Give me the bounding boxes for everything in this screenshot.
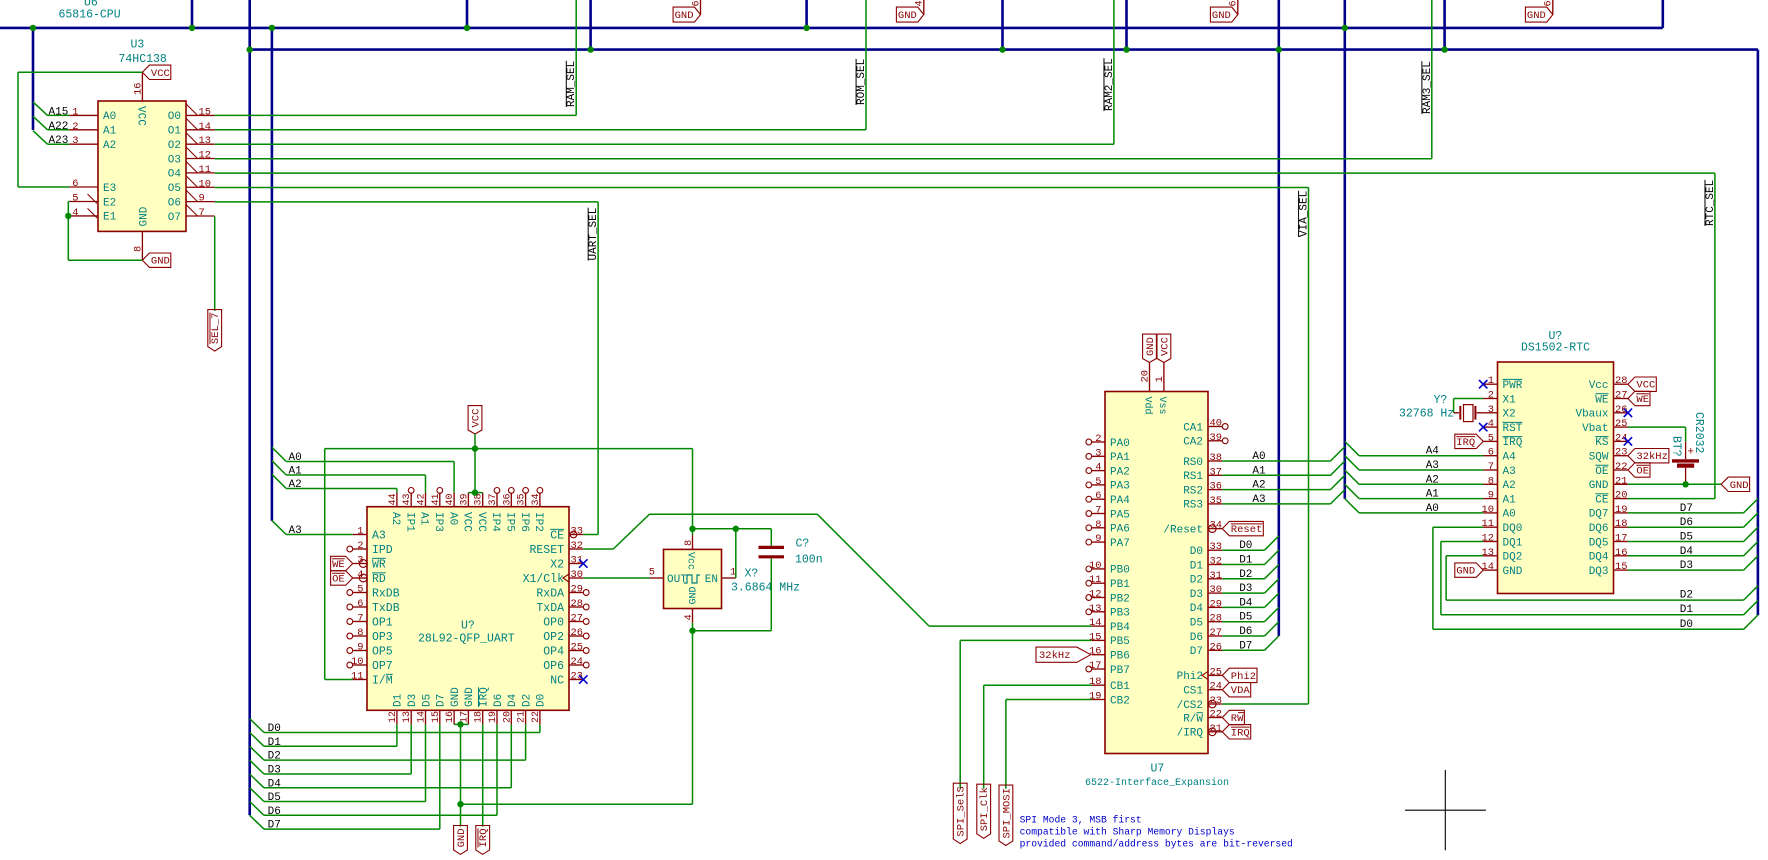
svg-text:A0: A0: [103, 111, 116, 123]
svg-text:8: 8: [1095, 519, 1101, 531]
svg-text:PA4: PA4: [1110, 495, 1130, 507]
svg-text:DQ5: DQ5: [1589, 537, 1609, 549]
svg-text:18: 18: [1089, 676, 1101, 688]
svg-text:VCC: VCC: [151, 68, 170, 80]
svg-text:19: 19: [488, 711, 499, 723]
svg-text:5: 5: [72, 193, 78, 205]
svg-text:VCC: VCC: [461, 512, 473, 532]
svg-text:PB3: PB3: [1110, 608, 1130, 620]
svg-text:D1: D1: [268, 737, 282, 749]
svg-text:28: 28: [571, 598, 583, 610]
svg-text:A2: A2: [389, 512, 401, 525]
svg-text:C?: C?: [796, 538, 810, 551]
svg-text:OP7: OP7: [372, 660, 393, 673]
svg-text:OP3: OP3: [372, 631, 393, 644]
svg-text:WR: WR: [372, 558, 386, 571]
svg-text:15: 15: [199, 106, 211, 118]
svg-text:VCC: VCC: [470, 409, 482, 428]
svg-text:A2: A2: [1503, 480, 1516, 492]
svg-text:VCC: VCC: [1159, 337, 1171, 356]
svg-text:GND: GND: [456, 828, 468, 847]
svg-text:A15: A15: [49, 106, 69, 118]
svg-text:3: 3: [72, 135, 78, 147]
svg-text:65816-CPU: 65816-CPU: [59, 9, 121, 22]
svg-text:PB4: PB4: [1110, 622, 1130, 634]
svg-text:GND: GND: [675, 10, 694, 22]
svg-text:28: 28: [1210, 613, 1222, 625]
svg-text:GND: GND: [1527, 10, 1546, 22]
svg-text:2: 2: [1095, 433, 1101, 445]
svg-text:A3: A3: [372, 529, 386, 542]
svg-text:A3: A3: [289, 525, 302, 537]
svg-text:SPI_SelS: SPI_SelS: [956, 786, 968, 836]
svg-text:14: 14: [199, 121, 211, 133]
svg-text:6: 6: [72, 178, 78, 190]
svg-text:10: 10: [199, 178, 211, 190]
svg-text:A0: A0: [446, 512, 458, 525]
svg-text:D6: D6: [1239, 626, 1252, 638]
svg-text:25: 25: [1615, 418, 1627, 430]
svg-text:1: 1: [357, 526, 363, 538]
svg-text:/IRQ: /IRQ: [1177, 728, 1204, 740]
svg-text:44: 44: [388, 493, 399, 505]
svg-text:2: 2: [357, 540, 363, 552]
svg-text:O7: O7: [168, 212, 181, 224]
svg-text:14: 14: [417, 711, 428, 723]
svg-text:GND: GND: [138, 206, 150, 226]
svg-text:D4: D4: [507, 693, 519, 707]
svg-text:24: 24: [1210, 681, 1222, 693]
svg-text:35: 35: [1210, 495, 1222, 507]
svg-text:D0: D0: [536, 694, 548, 707]
svg-text:D0: D0: [268, 723, 281, 735]
svg-text:15: 15: [1615, 561, 1627, 573]
svg-text:compatible with Sharp Memory D: compatible with Sharp Memory Displays: [1020, 827, 1235, 838]
svg-text:3: 3: [1095, 447, 1101, 459]
svg-text:23: 23: [1615, 447, 1627, 459]
svg-text:O6: O6: [168, 197, 181, 209]
svg-text:IRQ: IRQ: [1503, 437, 1523, 449]
svg-text:IP3: IP3: [432, 512, 444, 532]
svg-text:16: 16: [1089, 646, 1101, 658]
svg-text:RTC_SEL: RTC_SEL: [1705, 180, 1717, 226]
svg-text:PA2: PA2: [1110, 466, 1130, 478]
svg-text:O2: O2: [168, 140, 181, 152]
svg-text:1: 1: [1154, 376, 1166, 382]
svg-text:SQW: SQW: [1589, 452, 1609, 464]
svg-text:D5: D5: [1239, 612, 1252, 624]
svg-text:WE: WE: [1595, 394, 1609, 406]
svg-text:X1: X1: [1503, 394, 1517, 406]
svg-text:BT?: BT?: [1670, 436, 1683, 457]
svg-text:Vcc: Vcc: [685, 552, 696, 570]
svg-text:RESET: RESET: [529, 544, 564, 557]
svg-text:O3: O3: [168, 154, 181, 166]
svg-text:X?: X?: [745, 568, 759, 581]
svg-text:CR2032: CR2032: [1692, 412, 1705, 454]
svg-text:28: 28: [1615, 375, 1627, 387]
svg-text:9: 9: [357, 642, 363, 654]
svg-text:/Reset: /Reset: [1163, 524, 1203, 536]
svg-text:9: 9: [1488, 490, 1494, 502]
svg-text:3: 3: [1488, 404, 1494, 416]
svg-text:KS: KS: [1595, 437, 1609, 449]
svg-text:7: 7: [199, 207, 205, 219]
svg-text:OE: OE: [1636, 465, 1649, 477]
svg-text:D4: D4: [1190, 603, 1204, 615]
svg-text:I/M: I/M: [372, 674, 393, 687]
svg-text:34: 34: [531, 493, 542, 505]
svg-text:GND: GND: [450, 687, 462, 707]
svg-text:X1/Clk: X1/Clk: [523, 573, 565, 586]
svg-text:7: 7: [1095, 505, 1101, 517]
svg-text:DQ3: DQ3: [1589, 566, 1609, 578]
svg-text:VCC: VCC: [475, 512, 487, 532]
svg-text:VCC: VCC: [135, 106, 147, 126]
svg-text:Vbat: Vbat: [1582, 423, 1608, 435]
svg-text:PA7: PA7: [1110, 538, 1130, 550]
svg-text:CE: CE: [550, 529, 564, 542]
svg-text:CA1: CA1: [1183, 422, 1203, 434]
svg-text:13: 13: [199, 135, 211, 147]
svg-text:D7: D7: [1190, 646, 1203, 658]
svg-text:41: 41: [431, 493, 442, 505]
svg-text:D0: D0: [1190, 546, 1203, 558]
svg-text:D2: D2: [521, 694, 533, 707]
svg-text:5: 5: [1488, 432, 1494, 444]
svg-text:D4: D4: [1680, 546, 1694, 558]
svg-text:32: 32: [571, 540, 583, 552]
svg-text:13: 13: [1482, 547, 1494, 559]
svg-text:A22: A22: [49, 121, 69, 133]
svg-text:A23: A23: [49, 135, 69, 147]
svg-text:TxDB: TxDB: [372, 602, 400, 615]
svg-text:5: 5: [649, 567, 655, 579]
svg-text:29: 29: [1210, 598, 1222, 610]
svg-text:A0: A0: [1252, 451, 1265, 463]
svg-text:PB6: PB6: [1110, 651, 1130, 663]
svg-text:39: 39: [1210, 432, 1222, 444]
svg-text:D3: D3: [1239, 583, 1252, 595]
svg-text:17: 17: [459, 711, 470, 723]
svg-text:A1: A1: [289, 466, 303, 478]
svg-text:E2: E2: [103, 197, 116, 209]
svg-text:DS1502-RTC: DS1502-RTC: [1521, 341, 1590, 354]
svg-text:4: 4: [1095, 462, 1101, 474]
svg-text:A2: A2: [1426, 474, 1439, 486]
svg-text:GND: GND: [689, 586, 700, 604]
svg-text:Vcc: Vcc: [1589, 380, 1609, 392]
svg-text:provided command/address bytes: provided command/address bytes are bit-r…: [1020, 839, 1293, 850]
svg-text:PA1: PA1: [1110, 452, 1130, 464]
svg-text:39: 39: [459, 493, 470, 505]
svg-text:D2: D2: [1190, 575, 1203, 587]
svg-text:D0: D0: [1239, 540, 1252, 552]
svg-text:OE: OE: [332, 573, 345, 585]
svg-text:22: 22: [1210, 709, 1222, 721]
svg-text:12: 12: [199, 150, 211, 162]
svg-text:4: 4: [1488, 418, 1494, 430]
svg-text:20: 20: [1615, 490, 1627, 502]
svg-text:10: 10: [1482, 504, 1494, 516]
svg-text:11: 11: [199, 164, 211, 176]
svg-text:25: 25: [571, 642, 583, 654]
svg-text:X2: X2: [550, 558, 564, 571]
svg-text:GND: GND: [1212, 10, 1231, 22]
svg-text:DQ6: DQ6: [1589, 523, 1609, 535]
svg-text:SPI_Clk: SPI_Clk: [979, 787, 991, 831]
svg-text:6: 6: [1229, 0, 1240, 6]
svg-text:PA0: PA0: [1110, 438, 1130, 450]
svg-text:RxDA: RxDA: [536, 587, 564, 600]
svg-text:D2: D2: [1239, 569, 1252, 581]
svg-text:29: 29: [571, 584, 583, 596]
svg-text:A1: A1: [1426, 489, 1440, 501]
svg-text:A2: A2: [1252, 480, 1265, 492]
svg-text:GND: GND: [1456, 566, 1475, 578]
svg-text:PB0: PB0: [1110, 565, 1130, 577]
svg-text:RD: RD: [372, 573, 386, 586]
svg-text:30: 30: [1210, 584, 1222, 596]
svg-text:D3: D3: [1680, 560, 1693, 572]
svg-text:A0: A0: [289, 452, 302, 464]
svg-text:O5: O5: [168, 183, 181, 195]
svg-text:RAM3_SEL: RAM3_SEL: [1422, 61, 1434, 114]
svg-text:RS1: RS1: [1183, 471, 1203, 483]
svg-text:30: 30: [571, 569, 583, 581]
svg-text:RS2: RS2: [1183, 485, 1203, 497]
svg-text:EN: EN: [705, 574, 718, 586]
svg-text:6: 6: [1544, 0, 1555, 6]
svg-text:GND: GND: [898, 10, 917, 22]
svg-text:PB2: PB2: [1110, 593, 1130, 605]
svg-text:RS0: RS0: [1183, 457, 1203, 469]
svg-text:Reset: Reset: [1231, 524, 1263, 536]
svg-text:IP1: IP1: [403, 512, 415, 532]
svg-text:PA3: PA3: [1110, 481, 1130, 493]
svg-text:15: 15: [431, 711, 442, 723]
svg-text:TxDA: TxDA: [536, 602, 564, 615]
svg-text:UART_SEL: UART_SEL: [588, 208, 600, 261]
svg-text:GND: GND: [151, 256, 170, 268]
svg-text:IP2: IP2: [532, 512, 544, 532]
svg-text:26: 26: [571, 627, 583, 639]
svg-text:Phi2: Phi2: [1177, 671, 1203, 683]
svg-text:8: 8: [133, 246, 145, 252]
svg-text:CB1: CB1: [1110, 681, 1130, 693]
svg-text:D1: D1: [1239, 555, 1253, 567]
svg-text:IPD: IPD: [372, 544, 393, 557]
svg-text:OP6: OP6: [543, 660, 564, 673]
svg-text:32kHz: 32kHz: [1039, 650, 1071, 662]
svg-text:D5: D5: [1680, 532, 1693, 544]
svg-text:7: 7: [357, 613, 363, 625]
svg-text:16: 16: [445, 711, 456, 723]
svg-text:U7: U7: [1151, 763, 1165, 776]
svg-text:RAM_SEL: RAM_SEL: [566, 61, 578, 107]
svg-text:5: 5: [1095, 476, 1101, 488]
svg-text:27: 27: [571, 613, 583, 625]
svg-text:Vdd: Vdd: [1142, 397, 1154, 415]
svg-text:R/W: R/W: [1183, 713, 1203, 725]
svg-text:D6: D6: [493, 694, 505, 707]
svg-text:D0: D0: [1680, 619, 1693, 631]
svg-text:D7: D7: [1680, 503, 1693, 515]
svg-text:RW: RW: [1231, 713, 1244, 725]
svg-text:DQ7: DQ7: [1589, 509, 1609, 521]
svg-text:18: 18: [1615, 518, 1627, 530]
svg-text:18: 18: [474, 711, 485, 723]
svg-text:GND: GND: [464, 687, 476, 707]
svg-text:PA5: PA5: [1110, 509, 1130, 521]
svg-text:40: 40: [445, 493, 456, 505]
svg-text:8: 8: [357, 627, 363, 639]
svg-text:D7: D7: [1239, 640, 1252, 652]
svg-text:D2: D2: [268, 751, 281, 763]
svg-text:U3: U3: [131, 39, 145, 52]
svg-text:CA2: CA2: [1183, 437, 1203, 449]
svg-text:6522-Interface_Expansion: 6522-Interface_Expansion: [1085, 777, 1229, 789]
svg-text:6: 6: [1095, 490, 1101, 502]
svg-text:O0: O0: [168, 111, 181, 123]
svg-text:D1: D1: [1680, 604, 1694, 616]
svg-text:3.6864 MHz: 3.6864 MHz: [731, 582, 800, 595]
svg-text:OE: OE: [1595, 466, 1609, 478]
svg-text:6: 6: [1488, 447, 1494, 459]
svg-text:1: 1: [1488, 375, 1494, 387]
svg-text:6: 6: [691, 0, 702, 6]
svg-text:DQ2: DQ2: [1503, 552, 1523, 564]
svg-text:D1: D1: [1190, 560, 1204, 572]
svg-text:D2: D2: [1680, 590, 1693, 602]
svg-text:D3: D3: [407, 694, 419, 707]
svg-text:IRQ: IRQ: [1231, 727, 1250, 739]
svg-text:28L92-QFP_UART: 28L92-QFP_UART: [418, 632, 515, 645]
svg-text:22: 22: [1615, 461, 1627, 473]
svg-text:WE: WE: [1636, 394, 1649, 406]
svg-text:37: 37: [488, 493, 499, 505]
svg-text:CS1: CS1: [1183, 686, 1203, 698]
svg-text:16: 16: [133, 83, 145, 95]
svg-text:21: 21: [1615, 475, 1627, 487]
svg-text:36: 36: [1210, 481, 1222, 493]
svg-text:11: 11: [1482, 518, 1494, 530]
svg-text:PWR: PWR: [1503, 380, 1523, 392]
svg-text:A1: A1: [1252, 465, 1266, 477]
svg-text:11: 11: [351, 671, 363, 683]
svg-text:OP0: OP0: [543, 616, 564, 629]
svg-text:D4: D4: [268, 778, 282, 790]
svg-text:D1: D1: [393, 693, 405, 707]
svg-text:SPI Mode 3, MSB first: SPI Mode 3, MSB first: [1020, 815, 1142, 826]
svg-text:27: 27: [1210, 627, 1222, 639]
svg-text:Phi2: Phi2: [1231, 671, 1256, 683]
svg-text:21: 21: [517, 711, 528, 723]
svg-text:U?: U?: [461, 619, 475, 632]
svg-text:A1: A1: [418, 512, 430, 526]
svg-text:A4: A4: [1426, 446, 1440, 458]
svg-text:A1: A1: [1503, 494, 1517, 506]
svg-text:GND: GND: [1589, 480, 1609, 492]
svg-text:27: 27: [1615, 390, 1627, 402]
svg-text:IP6: IP6: [518, 512, 530, 532]
svg-text:24: 24: [571, 656, 583, 668]
svg-text:4: 4: [72, 207, 78, 219]
svg-text:1: 1: [72, 106, 78, 118]
svg-text:16: 16: [1615, 547, 1627, 559]
svg-text:ROM_SEL: ROM_SEL: [856, 59, 868, 105]
svg-text:8: 8: [1488, 475, 1494, 487]
svg-text:IRQ: IRQ: [478, 828, 490, 847]
svg-text:PB7: PB7: [1110, 665, 1130, 677]
svg-text:A0: A0: [1426, 503, 1439, 515]
svg-text:VDA: VDA: [1231, 685, 1251, 697]
svg-text:7: 7: [1488, 461, 1494, 473]
svg-text:A3: A3: [1426, 460, 1439, 472]
svg-text:D6: D6: [1190, 632, 1203, 644]
svg-text:O4: O4: [168, 169, 182, 181]
svg-text:15: 15: [1089, 631, 1101, 643]
svg-text:D6: D6: [1680, 517, 1693, 529]
svg-text:D4: D4: [1239, 597, 1253, 609]
svg-text:32: 32: [1210, 556, 1222, 568]
svg-text:26: 26: [1210, 641, 1222, 653]
svg-text:6: 6: [357, 598, 363, 610]
svg-text:19: 19: [1089, 691, 1101, 703]
svg-text:9: 9: [199, 193, 205, 205]
svg-text:D7: D7: [436, 694, 448, 707]
svg-text:OP1: OP1: [372, 616, 393, 629]
svg-text:DQ4: DQ4: [1589, 552, 1609, 564]
svg-text:31: 31: [1210, 570, 1222, 582]
svg-text:DQ0: DQ0: [1503, 523, 1523, 535]
svg-text:E1: E1: [103, 212, 117, 224]
svg-text:14: 14: [1482, 561, 1494, 573]
svg-text:36: 36: [502, 493, 513, 505]
svg-text:D6: D6: [268, 806, 281, 818]
svg-text:PB5: PB5: [1110, 636, 1130, 648]
svg-text:12: 12: [388, 711, 399, 723]
svg-text:4: 4: [683, 614, 695, 620]
svg-text:Vbaux: Vbaux: [1575, 409, 1608, 421]
svg-text:A3: A3: [1503, 466, 1516, 478]
svg-text:WE: WE: [332, 559, 345, 571]
svg-text:IRQ: IRQ: [1456, 437, 1475, 449]
svg-text:A1: A1: [103, 126, 117, 138]
svg-text:GND: GND: [1145, 337, 1157, 356]
svg-text:GND: GND: [1730, 480, 1749, 492]
svg-text:A3: A3: [1252, 494, 1265, 506]
svg-text:5: 5: [357, 584, 363, 596]
svg-text:22: 22: [531, 711, 542, 723]
svg-text:VCC: VCC: [1636, 380, 1655, 392]
svg-text:A2: A2: [289, 479, 302, 491]
svg-text:OUT: OUT: [667, 574, 687, 586]
svg-text:43: 43: [402, 493, 413, 505]
svg-text:PB1: PB1: [1110, 579, 1130, 591]
svg-text:2: 2: [1488, 390, 1494, 402]
svg-text:40: 40: [1210, 418, 1222, 430]
svg-text:25: 25: [1210, 666, 1222, 678]
svg-text:RS3: RS3: [1183, 500, 1203, 512]
svg-text:Y?: Y?: [1434, 394, 1448, 407]
svg-text:OP2: OP2: [543, 631, 564, 644]
svg-text:4: 4: [915, 0, 926, 6]
svg-text:RAM2_SEL: RAM2_SEL: [1104, 58, 1116, 111]
svg-text:SEL_7: SEL_7: [210, 313, 222, 345]
svg-text:D7: D7: [268, 820, 281, 832]
svg-text:9: 9: [1095, 533, 1101, 545]
